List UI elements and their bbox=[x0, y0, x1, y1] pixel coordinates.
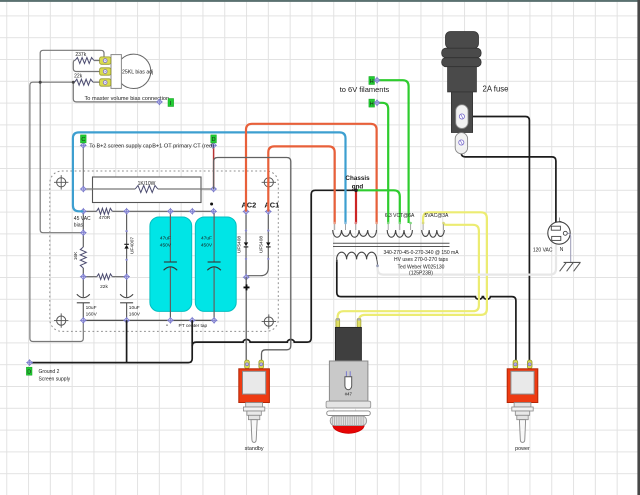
tag D (ground 2) bbox=[26, 367, 32, 375]
pilot lamp ribbed collar bbox=[330, 416, 366, 426]
svg-text:25KL bias adj: 25KL bias adj bbox=[122, 69, 153, 75]
toggle switch standby: body bbox=[239, 369, 270, 403]
svg-text:To B+2 screen supply cap: To B+2 screen supply cap bbox=[89, 143, 151, 149]
toggle switch power: body bbox=[507, 369, 538, 403]
transformer 6.3VCT winding bbox=[387, 230, 412, 237]
svg-text:Chassis: Chassis bbox=[345, 175, 370, 182]
wire: blue 45V bias tap bbox=[73, 132, 346, 223]
wire: gray 1K/10W right to standby switch bbox=[214, 158, 291, 361]
tag I (master volume net) bbox=[168, 99, 174, 107]
wire: 45VAC bias bus (top bus) bbox=[83, 210, 213, 212]
node: 1K/10W right bbox=[210, 186, 217, 193]
capacitor 10uF 160V (A) bbox=[77, 294, 98, 317]
window right border bbox=[637, 0, 640, 495]
PCB mounting hole top-right bbox=[262, 175, 276, 189]
svg-text:340-270-45-0-270-340 @ 150 mA: 340-270-45-0-270-340 @ 150 mA bbox=[383, 250, 459, 256]
junction dot pot wires bbox=[39, 81, 42, 84]
terminal D: B+1 OT primary CT bbox=[210, 142, 217, 149]
svg-text:Screen supply: Screen supply bbox=[39, 376, 71, 382]
svg-text:470R: 470R bbox=[99, 215, 111, 221]
transformer HV secondary winding bbox=[333, 230, 377, 237]
wire: orange AC1 to HV left bbox=[268, 146, 334, 223]
wire: black column B to ground run bbox=[126, 320, 128, 362]
polarity dot near 1K/10W right bbox=[210, 203, 213, 206]
wire: column A (16K / 10uF) bbox=[82, 211, 84, 320]
tag C bbox=[81, 135, 87, 143]
svg-text:5VAC@3A: 5VAC@3A bbox=[425, 213, 450, 219]
wire: black ground2 to PCB bottom bus bbox=[30, 320, 193, 362]
tag H (filament B) bbox=[369, 77, 375, 85]
node: bottom bus bbox=[123, 317, 130, 324]
wire: top pot lug to 16K node (gray, routed left/down) bbox=[40, 50, 104, 232]
fuse holder ribs bbox=[442, 48, 481, 58]
svg-text:To master volume bias connecti: To master volume bias connection bbox=[85, 96, 170, 102]
svg-text:L: L bbox=[559, 217, 562, 223]
svg-text:to 6V filaments: to 6V filaments bbox=[340, 85, 390, 94]
pilot lamp pin 1 bbox=[336, 318, 340, 327]
svg-text:AC1: AC1 bbox=[264, 200, 279, 209]
diode UF5408 (AC2) bbox=[236, 212, 248, 278]
fuse holder cap bbox=[446, 32, 479, 49]
PCB mounting hole top-left bbox=[54, 175, 68, 189]
svg-text:AC2: AC2 bbox=[241, 200, 256, 209]
pilot lamp retaining ring bbox=[327, 411, 371, 416]
PCB dashed outline bbox=[50, 171, 278, 331]
node: top bus bbox=[123, 208, 130, 215]
wire: black fuse T2 to outlet L bbox=[461, 143, 556, 223]
pilot lamp bulb #47 bbox=[345, 371, 353, 396]
diode UF5408 (AC1) bbox=[246, 212, 270, 278]
node: bottom bus bbox=[80, 317, 87, 324]
svg-text:-: - bbox=[166, 323, 168, 329]
label: transformer spec bbox=[383, 250, 459, 276]
svg-text:H: H bbox=[370, 101, 374, 107]
potentiometer 25KL bias adj bbox=[100, 54, 154, 88]
outlet slot N bbox=[552, 236, 561, 240]
svg-text:160V: 160V bbox=[129, 311, 141, 317]
svg-text:160V: 160V bbox=[86, 311, 98, 317]
svg-text:120 VAC: 120 VAC bbox=[533, 248, 553, 254]
wire: black branch to chassis gnd junction bbox=[192, 190, 356, 346]
capacitor 10uF 160V (B) bbox=[120, 294, 141, 317]
toggle switch power: terminal lug 2 bbox=[527, 360, 532, 368]
wire: terminal C down to 1K/10W left bbox=[82, 145, 84, 189]
wire: green filament A bbox=[377, 103, 388, 223]
toggle switch power: lever bbox=[519, 420, 525, 443]
wire: PCB bottom ground bus bbox=[83, 319, 214, 321]
terminal C: To B+2 screen supply cap bbox=[80, 142, 87, 149]
wire: orange AC2 to HV right bbox=[246, 124, 377, 223]
toggle switch power: bushing bbox=[512, 403, 533, 420]
pilot lamp silver housing bbox=[329, 361, 368, 401]
resistor 16K (vertical) bbox=[73, 247, 86, 268]
node: top bus bbox=[189, 208, 196, 215]
svg-text:47uF: 47uF bbox=[201, 236, 212, 242]
toggle switch power: terminal lug 1 bbox=[513, 360, 518, 368]
svg-text:(125P23B): (125P23B) bbox=[409, 270, 433, 276]
diode UF4007 bbox=[124, 230, 135, 261]
node: top bus bbox=[210, 208, 217, 215]
svg-text:47uF: 47uF bbox=[160, 236, 171, 242]
node: filament A bbox=[374, 99, 381, 106]
node: top bus bbox=[167, 208, 174, 215]
wire: earth pin to chassis ground bbox=[567, 233, 570, 262]
node: 1K/10W left bbox=[80, 186, 87, 193]
svg-text:10uF: 10uF bbox=[86, 305, 97, 311]
svg-text:HV uses 270-0-270 taps: HV uses 270-0-270 taps bbox=[394, 257, 448, 263]
wire: 22k left to PCB ground bus (gray, routed far left/down) bbox=[30, 82, 83, 341]
PCB mounting hole bottom-left bbox=[54, 313, 68, 327]
transformer core bbox=[333, 243, 450, 246]
toggle switch standby: lever bbox=[251, 420, 257, 443]
fuse terminal 1 bbox=[456, 105, 468, 129]
terminal: Ground 2 Screen supply bbox=[26, 359, 33, 366]
svg-text:237k: 237k bbox=[75, 52, 86, 58]
svg-text:450V: 450V bbox=[160, 242, 172, 248]
window top border bbox=[0, 0, 640, 2]
node: AC2 bbox=[243, 208, 250, 215]
svg-text:D: D bbox=[27, 370, 31, 376]
svg-text:UF5408: UF5408 bbox=[259, 236, 265, 253]
node: filament B bbox=[374, 77, 381, 84]
svg-text:D: D bbox=[212, 137, 216, 143]
capacitor 47uF 450V (2) cyan body bbox=[195, 211, 236, 320]
wire: gray B+ junction to standby switch bbox=[245, 277, 247, 360]
fuse holder lower body bbox=[451, 92, 472, 133]
transformer 5VAC winding bbox=[422, 230, 445, 237]
node: bottom bus bbox=[211, 317, 218, 324]
wire: junction to master volume terminal bbox=[73, 82, 159, 102]
svg-text:C: C bbox=[81, 137, 85, 143]
resistor 237k bbox=[73, 52, 103, 71]
svg-text:2A fuse: 2A fuse bbox=[483, 85, 509, 94]
node: AC1 bbox=[265, 208, 272, 215]
node: top bus bbox=[80, 208, 87, 215]
chassis ground symbol bbox=[560, 262, 581, 271]
svg-text:Ground 2: Ground 2 bbox=[39, 369, 60, 375]
svg-text:power: power bbox=[515, 446, 530, 452]
junction dot chassis gnd bbox=[354, 189, 358, 193]
outlet earth pin bbox=[563, 231, 567, 235]
svg-text:N: N bbox=[560, 247, 564, 253]
wire: yellow 5V winding left to lamp bbox=[359, 212, 487, 321]
wire: black primary left to power switch bbox=[337, 260, 516, 361]
resistor 22k (PCB) bbox=[83, 274, 126, 290]
svg-text:45 VAC: 45 VAC bbox=[74, 216, 91, 222]
tag D bbox=[211, 135, 217, 143]
svg-text:UF5408: UF5408 bbox=[236, 236, 242, 253]
tag H (filament A) bbox=[369, 99, 375, 107]
svg-text:#47: #47 bbox=[345, 391, 353, 396]
outlet slot L bbox=[551, 226, 560, 230]
svg-text:UF4007: UF4007 bbox=[130, 237, 136, 254]
label + (B+ junction) bbox=[244, 284, 250, 290]
node: bottom bus bbox=[189, 317, 196, 324]
outlet circle bbox=[548, 222, 570, 244]
transformer primary winding bbox=[337, 252, 377, 259]
svg-text:10uF: 10uF bbox=[129, 305, 140, 311]
pilot lamp red dome bbox=[333, 416, 365, 433]
wire: white neutral outlet to primary bbox=[378, 244, 557, 274]
capacitor 47uF 450V (1) cyan body bbox=[150, 211, 192, 320]
toggle switch standby: bushing bbox=[243, 403, 264, 420]
svg-text:1K/10W: 1K/10W bbox=[138, 181, 156, 187]
svg-text:I: I bbox=[170, 101, 172, 107]
transformer lead stubs bbox=[335, 223, 444, 230]
transformer lead dots bbox=[333, 222, 444, 225]
svg-text:22k: 22k bbox=[74, 74, 83, 80]
pilot lamp flange bbox=[326, 401, 371, 408]
toggle switch standby: terminal lug 2 bbox=[259, 360, 264, 368]
wire: red HV center tap to chassis gnd bbox=[355, 190, 357, 223]
fuse terminal 2 bbox=[455, 133, 467, 154]
pilot lamp dark body bbox=[335, 327, 361, 361]
wire: green 6.3V center tap to chassis gnd bbox=[356, 190, 400, 223]
node: 16K top-ish bbox=[80, 229, 87, 236]
node: B+ junction bbox=[243, 274, 250, 281]
svg-text:gnd: gnd bbox=[352, 184, 364, 191]
svg-text:bias: bias bbox=[74, 223, 84, 229]
wire: black fuse T1 to power switch bbox=[462, 117, 529, 361]
resistor 470R bbox=[97, 208, 113, 221]
svg-text:Ted Weber W025130: Ted Weber W025130 bbox=[398, 264, 445, 270]
svg-text:22k: 22k bbox=[100, 284, 108, 290]
svg-text:16K: 16K bbox=[73, 251, 79, 260]
wire: green filament B bbox=[377, 80, 409, 223]
toggle switch standby: terminal lug 1 bbox=[245, 360, 250, 368]
wire: terminal D down to 1K/10W right (red) bbox=[213, 145, 215, 189]
fuse holder barrel bbox=[448, 67, 477, 92]
PCB mounting hole bottom-right bbox=[262, 314, 276, 328]
svg-text:B+1 OT primary CT (red): B+1 OT primary CT (red) bbox=[152, 143, 214, 149]
terminal: master volume bias bbox=[156, 99, 163, 106]
svg-text:standby: standby bbox=[245, 446, 264, 452]
node: 22k row B bbox=[123, 273, 130, 280]
wire: column B (UF4007 / 10uF) bbox=[126, 211, 128, 320]
wire: yellow 5V winding right to lamp bbox=[338, 223, 479, 321]
node: bottom bus bbox=[167, 317, 174, 324]
resistor 1K/10W power resistor box bbox=[83, 177, 213, 203]
svg-text:450V: 450V bbox=[201, 242, 213, 248]
pilot lamp pin 2 bbox=[357, 318, 361, 327]
transformer primary leads bbox=[337, 259, 378, 265]
svg-text:H: H bbox=[370, 79, 374, 85]
resistor 22k (pot) bbox=[74, 74, 103, 86]
node: 22k row A bbox=[80, 273, 87, 280]
svg-text:6.3 VCT@6A: 6.3 VCT@6A bbox=[385, 213, 415, 219]
